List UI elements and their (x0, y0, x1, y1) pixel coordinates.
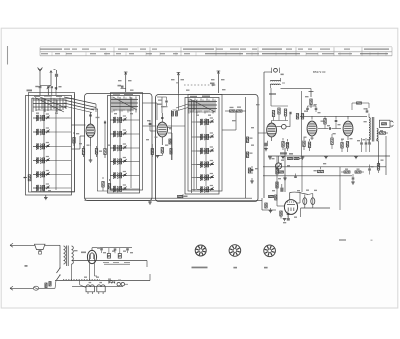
V2 top cap cluster (157, 97, 168, 107)
detector blob on bus (280, 152, 293, 154)
AVC capacitor C11 (290, 112, 291, 115)
ground under V6 (283, 219, 287, 221)
tube socket diagram K3 (264, 245, 276, 257)
resistor R18 (286, 139, 288, 151)
volume pot VR1 (275, 156, 281, 171)
ground g2 (324, 157, 328, 159)
title strip table (40, 47, 392, 56)
tube V1 (86, 112, 95, 146)
resistor R16 (310, 99, 312, 108)
capacitor C15 (335, 116, 338, 128)
wire under electrolytics (301, 194, 330, 218)
resistor R10c (246, 137, 252, 143)
electrolytic C31 (311, 194, 315, 209)
wire under box A (97, 190, 120, 192)
label 14 (281, 74, 284, 76)
res pair above V2 right (172, 110, 178, 116)
wire V2 down (168, 133, 172, 160)
label B53 (269, 93, 276, 95)
tuning gang C8 stub (210, 71, 220, 93)
speaker LS (380, 120, 394, 127)
coupling capacitor C14 (318, 127, 341, 130)
coil L12 with trimmer (110, 184, 140, 191)
wire IFT1 to aerial post (281, 88, 312, 90)
fuse F2 (33, 286, 38, 290)
ground bus wire (268, 155, 390, 157)
resistor R23 (341, 139, 343, 152)
switch bus wire (43, 99, 45, 192)
resistor R35 (265, 203, 267, 208)
resistor R6 (102, 177, 104, 191)
resistor R30 (355, 171, 364, 173)
dial lamp P1 (272, 68, 280, 73)
V2 plate wire right (168, 110, 172, 160)
fuse F1 (35, 244, 46, 254)
capacitor C29 (126, 249, 129, 253)
dial lamp P2 (117, 283, 120, 286)
IF transformer T1 (270, 78, 285, 88)
heater symbol H2 (80, 281, 106, 295)
coil unit S1 outer box (26, 93, 75, 196)
tube V4 detector (307, 116, 317, 140)
grid wire to V6 (277, 156, 284, 206)
coil unit S2 outer box (108, 93, 143, 194)
AVC resistor R13 (284, 109, 286, 116)
resistor R28 (318, 167, 324, 173)
shield box A (85, 94, 153, 201)
wire T2 secondary down (377, 136, 386, 167)
feedback wire 1 (263, 166, 386, 168)
coil L17 with trimmer (192, 173, 215, 180)
switch bus wire 3b (193, 100, 195, 191)
dial lamp P3 (121, 283, 128, 286)
resistor R21 (324, 116, 326, 128)
cluster at box B bottom (178, 194, 188, 198)
ground under V1 (89, 146, 93, 162)
resistor R27 (294, 157, 302, 159)
tube V6 output (284, 192, 308, 214)
tuning gang C5 stub (121, 72, 128, 92)
resistor R32 (276, 168, 278, 174)
ground g4 (301, 157, 305, 159)
resistor R10a (230, 107, 236, 112)
B+ rail wire (300, 115, 367, 117)
chassis bus wire (85, 198, 263, 200)
rectifier tube V7 (87, 248, 97, 281)
label K3 (264, 267, 268, 269)
vertical wire x340 (339, 167, 341, 210)
choke component (109, 280, 115, 283)
ground g1 (281, 157, 285, 159)
capacitor C4 at V1 top (89, 109, 98, 116)
power transformer T3 (60, 245, 73, 280)
ground on bus (148, 200, 152, 204)
shield box B (156, 95, 259, 202)
resistor R33 (276, 182, 278, 188)
resistor R9 cathode (156, 148, 164, 158)
B+ wire (92, 247, 132, 249)
vertical wire x302 (301, 91, 304, 192)
ground under coil box 1 (44, 195, 48, 200)
switch bus wire 3d (205, 118, 207, 186)
label AZ1 (81, 252, 86, 254)
ground under padder (250, 178, 254, 183)
capacitor C18 (368, 138, 371, 152)
fold mark (7, 46, 9, 65)
coil L7 with trimmer (110, 115, 140, 123)
wire box1 to V1 grid (72, 125, 86, 149)
tube V3 IF amp (258, 121, 277, 141)
label B5372 (313, 70, 326, 74)
band switch wafer cluster S3a (188, 96, 217, 114)
wire right edge (385, 155, 387, 175)
input resistor on box edge (23, 175, 30, 181)
resistor R8 (151, 144, 153, 157)
mains switch S4 (55, 267, 100, 288)
switch bus wire 3c (196, 100, 198, 189)
HT distribution wire (72, 261, 147, 266)
capacitor C10 (248, 166, 253, 174)
earth plug (54, 70, 59, 91)
AVC resistor R11 (272, 111, 274, 117)
output transformer T2 (369, 114, 378, 144)
capacitor C19 above T2 (352, 102, 369, 112)
resistor R10b (225, 107, 246, 113)
coil L11 with trimmer (110, 171, 140, 178)
resistor R14 (296, 114, 298, 120)
resistor on x171 lower (170, 149, 172, 155)
ground left of V6 (269, 208, 273, 213)
feedback wire 2 (263, 175, 352, 177)
wires box2 to V2 (143, 97, 186, 126)
capacitor C27 (114, 249, 117, 253)
wire V6 plate (297, 192, 300, 203)
tube V5 AF amp (343, 116, 353, 140)
wire right of heaters (147, 261, 150, 281)
resistor R5 (104, 149, 106, 159)
scattered value labels (36, 79, 384, 281)
coil L4 with trimmer (33, 156, 71, 163)
resistor R22 (331, 134, 333, 149)
electrolytic C26 (107, 248, 110, 258)
switch bus wire 2b (130, 97, 132, 188)
switch bus wire 3 (191, 100, 193, 193)
resistor R3 (95, 146, 97, 157)
coil L6 with trimmer (33, 183, 71, 190)
blob component above V6 (280, 184, 283, 192)
coil L1 with trimmer (33, 113, 71, 121)
label K2 (233, 267, 237, 269)
cathode blob V3 (264, 141, 268, 151)
resistor R7 (108, 179, 110, 189)
wire bundle box1 top to box A (64, 94, 98, 192)
wire osc to V2 (222, 111, 236, 130)
resistor R37 (49, 282, 51, 287)
capacitor C1 (35, 86, 41, 96)
vertical wire x285 (284, 148, 286, 192)
coil L9 with trimmer (110, 143, 140, 150)
resistor R1 (73, 132, 75, 146)
coil L16 with trimmer (192, 160, 215, 167)
switch bus wire 2 (119, 97, 121, 190)
label B1 (27, 90, 33, 92)
trimmer C6 (118, 85, 124, 87)
resistor R19 (303, 138, 305, 151)
heater symbol H1 (86, 282, 94, 294)
filament bus wire (55, 281, 150, 287)
resistor R26 (288, 157, 293, 159)
resistor R36 (45, 283, 47, 288)
capacitor C17 (365, 138, 368, 152)
capacitor C13 (308, 106, 318, 112)
capacitor C21 (294, 174, 297, 178)
coil L15 with trimmer (192, 146, 215, 153)
resistor R25 (377, 132, 388, 134)
resistor R15 (301, 114, 303, 120)
capacitor C16 (360, 138, 363, 152)
tuning gang C7 stub (176, 73, 180, 94)
mains wire bottom (10, 286, 55, 290)
capacitor C3 (51, 87, 53, 96)
capacitor C22 (351, 174, 355, 184)
gang link dashed (184, 84, 215, 86)
capacitor C25 (100, 249, 103, 253)
wire terminal mid (50, 71, 52, 86)
ground g3 (354, 157, 358, 159)
label K1 (192, 267, 208, 269)
capacitor C23 (368, 165, 371, 175)
cathode resistor R34 (280, 211, 282, 219)
resistor R38 (269, 195, 277, 200)
capacitor C9 (149, 120, 156, 131)
title strip row2 text (41, 53, 388, 54)
AVC resistor R12 (278, 108, 280, 114)
electrolytic C28 (118, 248, 121, 258)
ground det (283, 177, 287, 181)
resistor R10d (246, 152, 252, 158)
diode circle D1 (277, 112, 291, 129)
antenna A1 (38, 68, 43, 86)
tube socket diagram K2 (229, 245, 241, 257)
padder vertical wire (245, 97, 247, 198)
switch bus wire b (55, 99, 57, 190)
band switch wafer cluster S1a (33, 95, 66, 112)
trimmer C2 (40, 85, 51, 95)
coil L5 with trimmer (33, 170, 71, 177)
resistor R20 (308, 139, 310, 151)
wafer tail into gang stub (176, 93, 188, 111)
coil L10 with trimmer (110, 157, 140, 164)
aerial post (309, 89, 314, 98)
wire x105 (104, 121, 106, 149)
wire IFT1 to AVC (270, 88, 272, 106)
coil L2 with trimmer (33, 127, 71, 134)
mains wire top (10, 243, 60, 247)
resistor on x171 (169, 139, 171, 144)
cathode component under V6 (287, 215, 290, 221)
oscillator coil box S3 (185, 95, 222, 195)
coil L14 with trimmer (192, 132, 215, 139)
coil L8 with trimmer (110, 129, 140, 136)
resistor R17 (282, 138, 289, 150)
title strip row1 text (40, 49, 389, 50)
capacitor C12 (306, 106, 309, 112)
cathode capacitor C24 (287, 211, 290, 218)
caption text (339, 239, 373, 241)
label S (25, 265, 28, 267)
coil L3 with trimmer (33, 142, 71, 149)
coil L18 with trimmer (192, 185, 215, 192)
capacitor C3b (55, 86, 62, 96)
wire bus under output (262, 198, 276, 210)
resistor R27b (279, 171, 284, 173)
electrolytic C30 (303, 195, 307, 209)
resistor R31 (377, 161, 379, 173)
resistor R29 (341, 171, 350, 173)
tube V2 mixer (157, 113, 167, 145)
resistor R24 (346, 142, 348, 153)
AVC wires (271, 106, 288, 121)
tube socket diagram K1 (195, 245, 206, 256)
band switch wafer cluster S2a (111, 94, 138, 113)
coil L13 with trimmer (192, 117, 215, 125)
resistor R2 (82, 146, 84, 157)
ground g5 (268, 157, 272, 159)
long vertical wire to detector (264, 72, 272, 198)
svg-text:B5372 00: B5372 00 (313, 70, 326, 74)
